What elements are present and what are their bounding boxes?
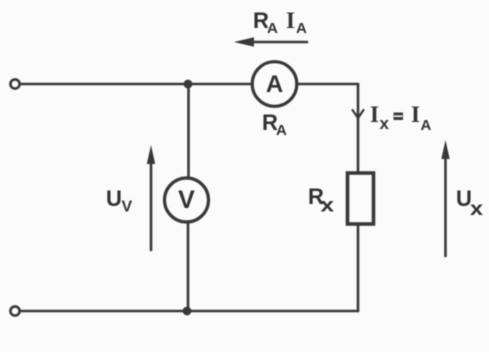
svg-text:U: U (106, 186, 122, 211)
svg-text:x: x (380, 114, 390, 133)
svg-text:V: V (122, 199, 133, 216)
svg-text:A: A (276, 122, 287, 139)
svg-text:A: A (267, 20, 278, 37)
svg-text:V: V (178, 186, 195, 214)
svg-text:I: I (411, 102, 420, 127)
svg-text:A: A (421, 117, 432, 134)
svg-text:I: I (286, 8, 295, 33)
svg-text:x: x (470, 199, 484, 220)
svg-text:A: A (296, 20, 307, 37)
svg-text:I: I (370, 102, 379, 127)
svg-text:x: x (321, 196, 335, 217)
svg-text:A: A (266, 71, 283, 98)
